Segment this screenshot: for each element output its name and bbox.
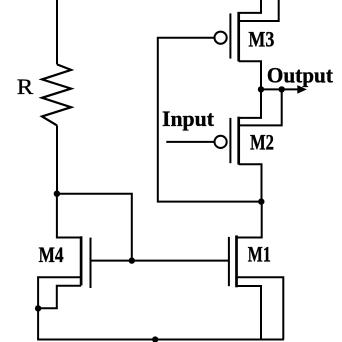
svg-text:R: R	[17, 74, 34, 99]
transistor M4	[38, 236, 90, 339]
svg-text:M1: M1	[248, 242, 271, 267]
transistor M2	[215, 89, 282, 201]
ground rail	[37, 338, 284, 340]
node rail junction dot	[152, 336, 158, 342]
output arrow	[282, 88, 298, 90]
node gate-bus junction dot	[129, 257, 135, 263]
node output junction dot 2	[279, 86, 285, 92]
svg-text:M3: M3	[248, 27, 274, 52]
svg-text:M4: M4	[39, 242, 64, 267]
svg-text:Output: Output	[267, 62, 333, 87]
node M4 source junction dot	[35, 305, 41, 311]
wire VDD to resistor top	[56, 0, 58, 64]
node B junction dot	[258, 198, 264, 204]
transistor M3	[215, 0, 279, 118]
node output junction dot 1	[258, 86, 264, 92]
wire resistor bottom to node A	[56, 125, 58, 193]
wire node B to M3 gate	[158, 38, 261, 202]
input lead wire	[166, 141, 214, 143]
transistor M1	[229, 202, 283, 340]
wire gate bus M4 gate to M1 gate	[91, 260, 229, 262]
node A junction dot	[54, 191, 60, 197]
svg-text:M2: M2	[250, 130, 274, 155]
resistor R	[42, 64, 71, 125]
wire node A down to M4 drain	[57, 194, 81, 238]
svg-text:Input: Input	[162, 106, 214, 131]
wire output node	[261, 88, 282, 90]
wire node A right and down to gate bus	[57, 194, 132, 261]
